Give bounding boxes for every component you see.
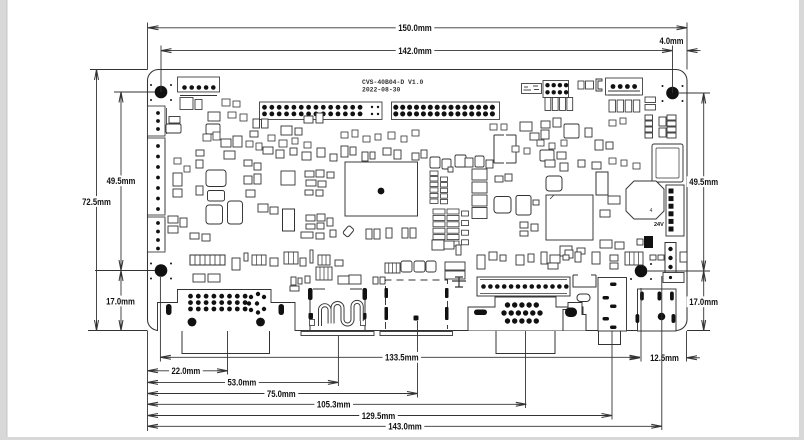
connector CN12 (DC power jack) — [598, 278, 627, 332]
dimension 150.0mm — [148, 22, 687, 33]
transformer T1 pads — [180, 98, 202, 110]
header J1 (2x16 pin, left) — [260, 102, 383, 120]
mounting hole H4 (bottom-right) — [630, 263, 652, 280]
capacitor C2 — [206, 170, 226, 187]
dimension 49.5mm (right) — [687, 93, 721, 271]
CN10 tab strip — [380, 332, 453, 336]
extension line (DC jack center) — [611, 331, 613, 420]
DVI shell below board — [182, 331, 270, 354]
svg-text:17.0mm: 17.0mm — [106, 296, 135, 306]
IC U4 (QFN top-right) — [652, 144, 683, 182]
capacitor C3 — [208, 191, 225, 202]
connector CN2 (left edge 3-pin) — [148, 106, 170, 136]
diode D2 — [637, 236, 653, 248]
connector CN8 (DVI) — [158, 290, 296, 332]
dimension 17.0mm (right) — [687, 271, 721, 331]
IC U2 (QFP) — [546, 195, 593, 240]
svg-text:2022-08-30: 2022-08-30 — [362, 87, 401, 94]
extension line (hole H3 down) — [159, 277, 161, 362]
pads under J4 — [193, 274, 220, 282]
IC U5 — [283, 209, 295, 231]
IC U6 — [516, 196, 531, 216]
capacitor C5 — [228, 201, 243, 224]
svg-text:129.5mm: 129.5mm — [362, 411, 396, 421]
component RN1 (labelled 822) — [522, 84, 542, 94]
connector CN7 (right edge 4-pin) — [665, 243, 676, 281]
dimension 49.5mm (left) — [104, 92, 138, 271]
left gray edge strip — [0, 0, 7, 440]
extension line (HDMI center) — [337, 336, 339, 387]
connector CN6 (LVDS right edge) — [666, 185, 684, 236]
resistor stack RN2 — [430, 171, 448, 204]
connector CN11 (VGA shell) — [468, 297, 583, 331]
resistor R1 — [578, 81, 594, 89]
dimension 53.0mm — [148, 377, 339, 388]
passive component cluster (mid-left) — [168, 170, 336, 241]
bottom gray edge strip — [0, 437, 804, 440]
IC U1 (main controller footprint) — [345, 162, 418, 216]
dimension 105.3mm — [148, 399, 527, 410]
connector CN13 (6-pin power) — [636, 289, 677, 331]
extension line (hole H2, right) — [679, 92, 710, 94]
board label CVS-40B04-D V1.0 — [362, 79, 424, 86]
connector CN10 (optional, dashed) — [385, 280, 449, 329]
extension line (board bottom edge, left) — [88, 330, 148, 332]
svg-text:49.5mm: 49.5mm — [107, 176, 136, 186]
extension line (CN13 center down) — [661, 276, 663, 430]
pads under J3 — [545, 98, 573, 111]
extension line (board left edge, top) — [147, 23, 149, 70]
extension line (board bottom edge, right) — [687, 330, 710, 332]
connector CN11 (VGA pin row) — [477, 277, 570, 296]
mounting hole H2 (top-right) — [662, 85, 684, 102]
dimension 142.0mm — [161, 45, 673, 56]
svg-text:133.5mm: 133.5mm — [385, 353, 419, 363]
dimension 12.5mm — [630, 352, 701, 363]
passive component row (above connectors) — [232, 240, 687, 291]
dimension 143.0mm — [148, 421, 662, 432]
dimension 22.0mm — [148, 365, 228, 376]
passive component filler cluster — [174, 99, 640, 172]
extension line (hole H2 center) — [672, 46, 674, 94]
HDMI tab strip — [301, 332, 374, 336]
label 24V — [654, 222, 664, 228]
svg-text:53.0mm: 53.0mm — [228, 378, 257, 388]
connector CN1 (top-left 5-pin) — [178, 77, 220, 96]
svg-text:105.3mm: 105.3mm — [317, 400, 351, 410]
through-hole part TP1 — [452, 277, 466, 287]
footprint J4 (divided) — [190, 255, 225, 265]
extension line (board right edge down) — [686, 331, 688, 362]
capacitor pair cluster — [366, 228, 416, 239]
pad oval — [577, 294, 590, 302]
dimension 17.0mm (left) — [104, 271, 138, 331]
inductor L1 (chamfered) — [626, 181, 664, 219]
svg-text:24V: 24V — [654, 222, 664, 228]
passive component cluster (top half) — [166, 112, 676, 172]
mounting hole H3 (bottom-left) — [150, 263, 172, 280]
svg-text:142.0mm: 142.0mm — [398, 46, 432, 56]
svg-text:22.0mm: 22.0mm — [172, 366, 201, 376]
extension line (CN13 left) — [640, 288, 642, 362]
extension line (hole H1, left) — [114, 91, 155, 93]
dimension 72.5mm — [80, 70, 114, 331]
header J3 (2x4 pin) — [543, 81, 569, 98]
extension line (hole H1 center) — [160, 46, 162, 93]
extension line (VGA center) — [525, 331, 527, 409]
svg-text:4: 4 — [650, 208, 653, 214]
capacitor C1 pair — [645, 97, 656, 110]
dimension 75.0mm — [148, 388, 418, 399]
extension line (hole H3, left) — [95, 270, 155, 272]
svg-text:75.0mm: 75.0mm — [267, 389, 296, 399]
dimension 4.0mm — [660, 36, 701, 53]
DC jack below board — [599, 331, 621, 345]
svg-text:49.5mm: 49.5mm — [689, 177, 718, 187]
diode D1 (diagonal) — [342, 225, 354, 237]
resistor network RN3 — [433, 209, 469, 246]
connector CN3 (left edge 7-pin) — [148, 138, 166, 215]
bracket pad P2 — [573, 275, 596, 287]
extension line (board left edge down) — [147, 331, 149, 431]
svg-text:143.0mm: 143.0mm — [388, 422, 422, 432]
extension line (CN10 center) — [417, 321, 419, 398]
svg-text:CVS-40B04-D V1.0: CVS-40B04-D V1.0 — [362, 79, 424, 86]
pads under CN5 — [609, 100, 640, 112]
IC bracket pads U3 — [494, 135, 516, 163]
audio jack A1 — [563, 303, 586, 331]
header J2 (2x15 pin, right) — [392, 102, 500, 120]
VGA shell below board — [496, 331, 555, 354]
svg-text:4.0mm: 4.0mm — [660, 36, 684, 46]
connector CN5 (top-right 4-pin) — [606, 78, 643, 95]
IC U7 — [596, 172, 608, 195]
svg-text:17.0mm: 17.0mm — [689, 297, 718, 307]
component near H4 — [663, 273, 684, 283]
right gray edge strip — [799, 0, 804, 440]
capacitor bank C6-C9 — [472, 169, 487, 219]
passive cluster (right-mid) — [560, 196, 624, 256]
svg-text:12.5mm: 12.5mm — [650, 353, 679, 363]
extension line (22mm point) — [227, 331, 229, 375]
dimension 133.5mm — [160, 352, 640, 363]
extension line (board top edge, left) — [90, 69, 148, 71]
connector CN9 (HDMI) — [308, 288, 367, 331]
connector CN4 (left edge 4-pin) — [148, 217, 166, 252]
capacitor C10 — [546, 176, 562, 191]
passive cluster (center-right) — [495, 174, 539, 236]
board label 2022-08-30 — [362, 87, 401, 94]
extension line (hole H4, right) — [648, 270, 711, 272]
PCB board outline — [148, 70, 688, 331]
extension line (board right edge, top) — [686, 23, 688, 70]
dimension 129.5mm — [148, 410, 613, 421]
crystal Y1 — [494, 197, 511, 214]
svg-text:72.5mm: 72.5mm — [82, 197, 111, 207]
capacitor C4 — [206, 205, 223, 224]
mounting hole H1 (top-left) — [150, 84, 172, 101]
bracket pad P1 — [596, 79, 602, 91]
svg-text:150.0mm: 150.0mm — [398, 23, 432, 33]
